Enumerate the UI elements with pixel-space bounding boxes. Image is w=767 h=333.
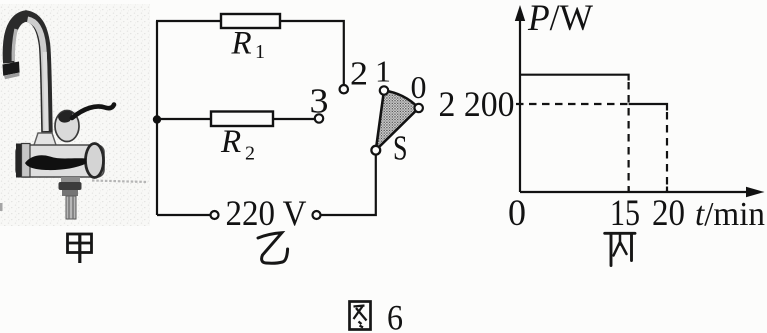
dashed vertical t=20 <box>666 112 668 192</box>
wire top run to R1 <box>156 20 221 22</box>
resistor R2 <box>211 112 273 127</box>
caption 图 <box>350 302 371 330</box>
wire R2 to terminal 3 <box>273 118 315 120</box>
faucet handle <box>55 105 114 142</box>
svg-text:1: 1 <box>255 41 265 63</box>
faucet photo background <box>0 4 150 226</box>
wire left bus <box>156 21 158 215</box>
faucet spout gooseneck <box>8 16 47 134</box>
svg-text:P/W: P/W <box>527 0 593 39</box>
faucet body cylinder <box>16 144 104 178</box>
dashed level 2200 <box>516 103 628 105</box>
svg-text:2 200: 2 200 <box>439 84 515 124</box>
switch contact 0 <box>415 104 423 112</box>
label 甲 <box>68 234 92 263</box>
scan mark left margin <box>0 203 3 211</box>
switch pivot <box>371 146 380 155</box>
label R2 <box>220 124 255 165</box>
faucet spout base mount <box>33 133 57 148</box>
switch contact 1 <box>380 86 388 94</box>
faucet nozzle tip <box>3 62 20 80</box>
terminal source right <box>313 211 321 219</box>
svg-text:2: 2 <box>245 143 255 165</box>
wire middle run to R2 <box>157 118 211 120</box>
junction node <box>153 115 161 123</box>
terminal 3 <box>315 114 323 122</box>
x axis <box>520 187 765 198</box>
svg-text:1: 1 <box>375 54 391 89</box>
svg-text:0: 0 <box>411 69 427 105</box>
power line 2200 segment 15-20 <box>629 104 667 111</box>
y axis <box>515 5 525 192</box>
svg-text:3: 3 <box>310 82 329 121</box>
label R1 <box>231 26 266 64</box>
faucet display window dark swoosh <box>25 155 86 170</box>
faucet outlet stem <box>59 177 82 219</box>
switch wiper S shaded sector <box>376 91 419 151</box>
svg-text:S: S <box>393 129 408 168</box>
tick 20 <box>666 187 668 193</box>
svg-text:2: 2 <box>350 56 368 93</box>
dashed vertical t=15 <box>627 82 629 192</box>
power line high segment 0-15 <box>520 75 629 81</box>
wire bottom left <box>157 214 211 216</box>
svg-text:t/min: t/min <box>695 196 765 233</box>
svg-text:R: R <box>220 124 241 160</box>
tick 15 <box>627 187 629 193</box>
fine print smudge right of stem <box>92 181 148 183</box>
svg-text:0: 0 <box>508 193 526 234</box>
terminal 2 <box>340 85 348 93</box>
svg-text:15: 15 <box>610 193 640 234</box>
terminal source left <box>211 211 219 219</box>
svg-text:20: 20 <box>652 193 685 234</box>
label 乙 <box>258 233 288 263</box>
svg-text:220 V: 220 V <box>226 193 307 233</box>
wire pivot down and left to source <box>321 155 376 215</box>
resistor R1 <box>221 14 280 28</box>
label 丙 <box>605 233 635 265</box>
wire R1 to corner and down to contact 2 <box>280 21 344 85</box>
svg-text:6: 6 <box>387 298 403 333</box>
svg-text:R: R <box>231 26 252 62</box>
